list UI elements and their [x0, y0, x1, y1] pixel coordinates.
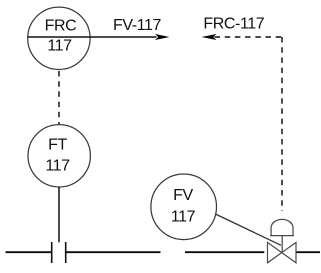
orifice flange left bar: [51, 242, 53, 263]
svg-text:117: 117: [45, 158, 70, 175]
svg-text:FV: FV: [173, 187, 193, 204]
wire: dashed FRC-117 signal horizontal segment: [215, 36, 283, 38]
wire: process pipe segment 1 (left edge to orifice): [6, 251, 51, 253]
wire: process pipe segment 4 (valve to right edge): [296, 251, 320, 253]
svg-text:117: 117: [47, 38, 72, 55]
arrowhead of FV-117 signal: [155, 34, 170, 40]
arrowhead of FRC-117 signal (points left): [202, 34, 217, 40]
diaphragm actuator dome: [271, 219, 293, 235]
wire: process pipe segment 2 (orifice to gap): [67, 251, 161, 253]
wire: process pipe segment 3 (gap to valve): [185, 251, 264, 253]
instrument bubble FRC 117: [28, 7, 90, 69]
wire: FV-117 output signal line through FRC bubble: [28, 36, 157, 38]
wire: link FV bubble to valve stem: [215, 214, 281, 245]
svg-text:FV-117: FV-117: [113, 17, 162, 34]
wire: dashed FRC-117 signal vertical segment: [281, 37, 283, 211]
svg-text:FT: FT: [48, 137, 67, 154]
control valve body FV-117 (bowtie): [268, 242, 297, 262]
instrument bubble FV 117: [151, 174, 217, 240]
wire: dashed signal FRC to FT: [58, 71, 60, 124]
wire: impulse line FT to orifice tap: [58, 187, 60, 242]
svg-text:FRC: FRC: [45, 18, 77, 35]
svg-text:117: 117: [171, 209, 196, 226]
valve stem: [281, 236, 283, 253]
actuator base line: [270, 235, 294, 237]
instrument bubble FT 117: [28, 125, 90, 187]
svg-text:FRC-117: FRC-117: [203, 15, 264, 32]
orifice flange right bar: [65, 242, 67, 263]
